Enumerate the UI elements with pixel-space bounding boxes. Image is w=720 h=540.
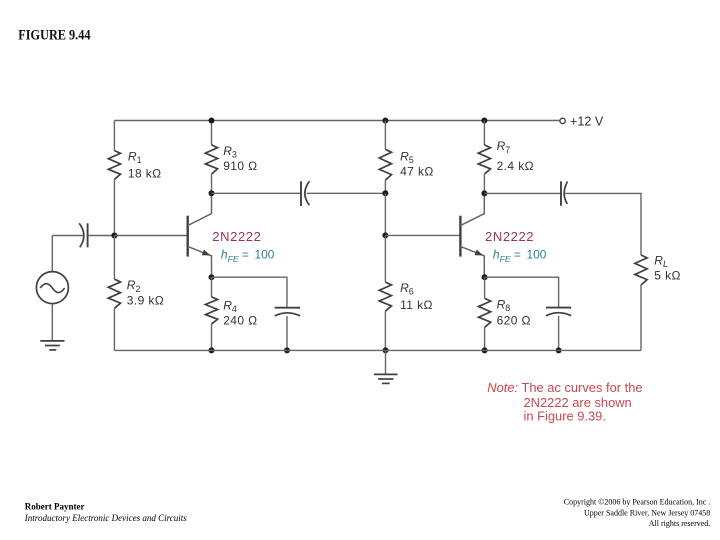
wire Q2 emitter to R8 xyxy=(484,277,486,298)
svg-text:Upper Saddle River, New Jersey: Upper Saddle River, New Jersey 07458 xyxy=(584,509,710,518)
transistor Q2 base bar xyxy=(459,216,461,257)
junction R5 / top rail xyxy=(382,118,388,124)
capacitor C5 straight plate xyxy=(560,181,562,205)
wire R1 top (rail to R1) xyxy=(113,121,115,151)
svg-text:Copyright ©2006 by Pearson Edu: Copyright ©2006 by Pearson Education, In… xyxy=(564,497,711,506)
wire bottom ground rail xyxy=(114,349,641,351)
svg-text:910 Ω: 910 Ω xyxy=(223,159,257,173)
resistor RL xyxy=(635,255,647,285)
resistor R1 xyxy=(108,151,120,180)
resistor R8 xyxy=(479,298,491,327)
junction R6-ground / bottom rail xyxy=(383,347,389,353)
wire input source to C1 xyxy=(52,235,83,237)
resistor R6 xyxy=(379,282,391,311)
svg-text:+12 V: +12 V xyxy=(570,115,604,129)
node D (Q2 base / R6 top) xyxy=(382,232,388,238)
capacitor C4 straight plate xyxy=(546,307,571,309)
wire RL bottom to rail xyxy=(640,285,642,350)
wire C2 to bottom rail xyxy=(286,316,288,350)
junction C2 / bottom rail xyxy=(284,347,290,353)
node E2 (Q2 emitter) xyxy=(482,274,488,280)
wire node A to Q1 base xyxy=(114,235,186,237)
node B (Q1 collector / R3 bottom) xyxy=(209,190,215,196)
svg-text:Robert Paynter: Robert Paynter xyxy=(25,501,85,511)
wire C5 to RL xyxy=(565,193,641,255)
wire top supply rail xyxy=(114,120,559,122)
wire R2 bottom to rail xyxy=(113,308,115,350)
capacitor C1 curved plate xyxy=(79,223,84,247)
junction R4 / bottom rail xyxy=(209,347,215,353)
svg-text:All rights reserved.: All rights reserved. xyxy=(649,519,711,528)
AC source VS circle xyxy=(36,272,68,304)
capacitor C1 straight plate xyxy=(87,223,89,247)
svg-text:11 kΩ: 11 kΩ xyxy=(400,298,433,312)
wire R1 bottom to base node A xyxy=(113,179,115,235)
wire R7 bottom to collector node F xyxy=(483,174,485,193)
junction R3 column / top rail xyxy=(209,118,215,124)
wire R2 top from node A xyxy=(113,236,115,280)
svg-text:620 Ω: 620 Ω xyxy=(497,313,531,327)
junction C4 / bottom rail xyxy=(556,347,562,353)
node A (Q1 base / R1-R2 junction) xyxy=(111,233,117,239)
transistor Q1 base bar xyxy=(186,216,188,257)
wire R6 bottom to rail xyxy=(384,311,386,350)
resistor R5 xyxy=(379,149,391,180)
wire rail to ground 2 xyxy=(385,350,387,374)
transistor Q1 collector lead xyxy=(188,193,212,225)
capacitor C2 curved plate xyxy=(275,313,300,316)
wire R3 top (rail to R3) xyxy=(211,121,213,145)
terminal +12 V supply xyxy=(560,118,565,123)
resistor R2 xyxy=(108,279,120,308)
wire R4 bottom to ground rail xyxy=(211,324,213,350)
svg-text:2N2222: 2N2222 xyxy=(212,229,261,244)
wire source top lead xyxy=(51,236,53,272)
svg-text:Introductory Electronic Device: Introductory Electronic Devices and Circ… xyxy=(24,513,187,523)
capacitor C3 straight plate xyxy=(300,181,302,206)
svg-text:2.4 kΩ: 2.4 kΩ xyxy=(497,159,534,173)
junction R7 / top rail xyxy=(481,118,487,124)
resistor R3 xyxy=(205,145,217,174)
wire C3 to node C xyxy=(307,192,386,194)
capacitor C4 curved plate xyxy=(546,313,571,316)
transistor Q2 collector lead xyxy=(460,193,484,225)
svg-text:3.9 kΩ: 3.9 kΩ xyxy=(127,293,164,307)
ground (bottom rail) xyxy=(374,374,398,383)
svg-text:FIGURE 9.44: FIGURE 9.44 xyxy=(18,28,91,44)
wire Q1 emitter to R4 xyxy=(211,277,213,297)
svg-text:47 kΩ: 47 kΩ xyxy=(400,164,434,178)
wire R5 top (rail to R5) xyxy=(384,121,386,150)
AC source sine wave xyxy=(40,284,64,293)
wire source bottom lead xyxy=(51,304,53,341)
resistor R4 xyxy=(205,297,217,324)
wire emitter node to C2 xyxy=(212,277,288,307)
transistor Q2 emitter arrow xyxy=(475,250,484,256)
resistor R7 xyxy=(478,145,490,174)
svg-text:240 Ω: 240 Ω xyxy=(223,313,257,327)
wire emitter node 2 to C4 xyxy=(485,277,559,307)
capacitor C5 curved plate xyxy=(564,182,567,205)
junction R8 / bottom rail xyxy=(482,347,488,353)
wire R7 top (rail to R7) xyxy=(483,121,485,145)
node E1 (Q1 emitter) xyxy=(209,274,215,280)
transistor Q1 emitter lead xyxy=(188,246,212,277)
wire R6 top from node D xyxy=(384,235,386,282)
wire C1 to base node A xyxy=(88,235,115,237)
wire R5 bottom to node C xyxy=(384,180,386,193)
wire node C down to node D xyxy=(384,193,386,235)
wire node B to C3 xyxy=(212,192,301,194)
transistor Q1 emitter arrow xyxy=(202,250,211,256)
capacitor C2 straight plate xyxy=(275,307,300,309)
ground (source) xyxy=(40,341,64,350)
wire R3 bottom to collector node B xyxy=(211,174,213,193)
wire node D to Q2 base xyxy=(385,234,459,236)
svg-text:5 kΩ: 5 kΩ xyxy=(654,268,681,282)
node C (C3 / R5 junction) xyxy=(382,190,388,196)
transistor Q2 emitter lead xyxy=(460,246,484,277)
capacitor C3 curved plate xyxy=(305,181,310,205)
svg-text:18 kΩ: 18 kΩ xyxy=(128,166,162,180)
svg-text:2N2222: 2N2222 xyxy=(485,229,534,244)
wire C4 to bottom rail xyxy=(558,316,560,351)
wire R8 bottom to rail xyxy=(484,327,486,350)
node F (Q2 collector / R7 bottom) xyxy=(481,190,487,196)
wire node F to C5 xyxy=(484,192,561,194)
